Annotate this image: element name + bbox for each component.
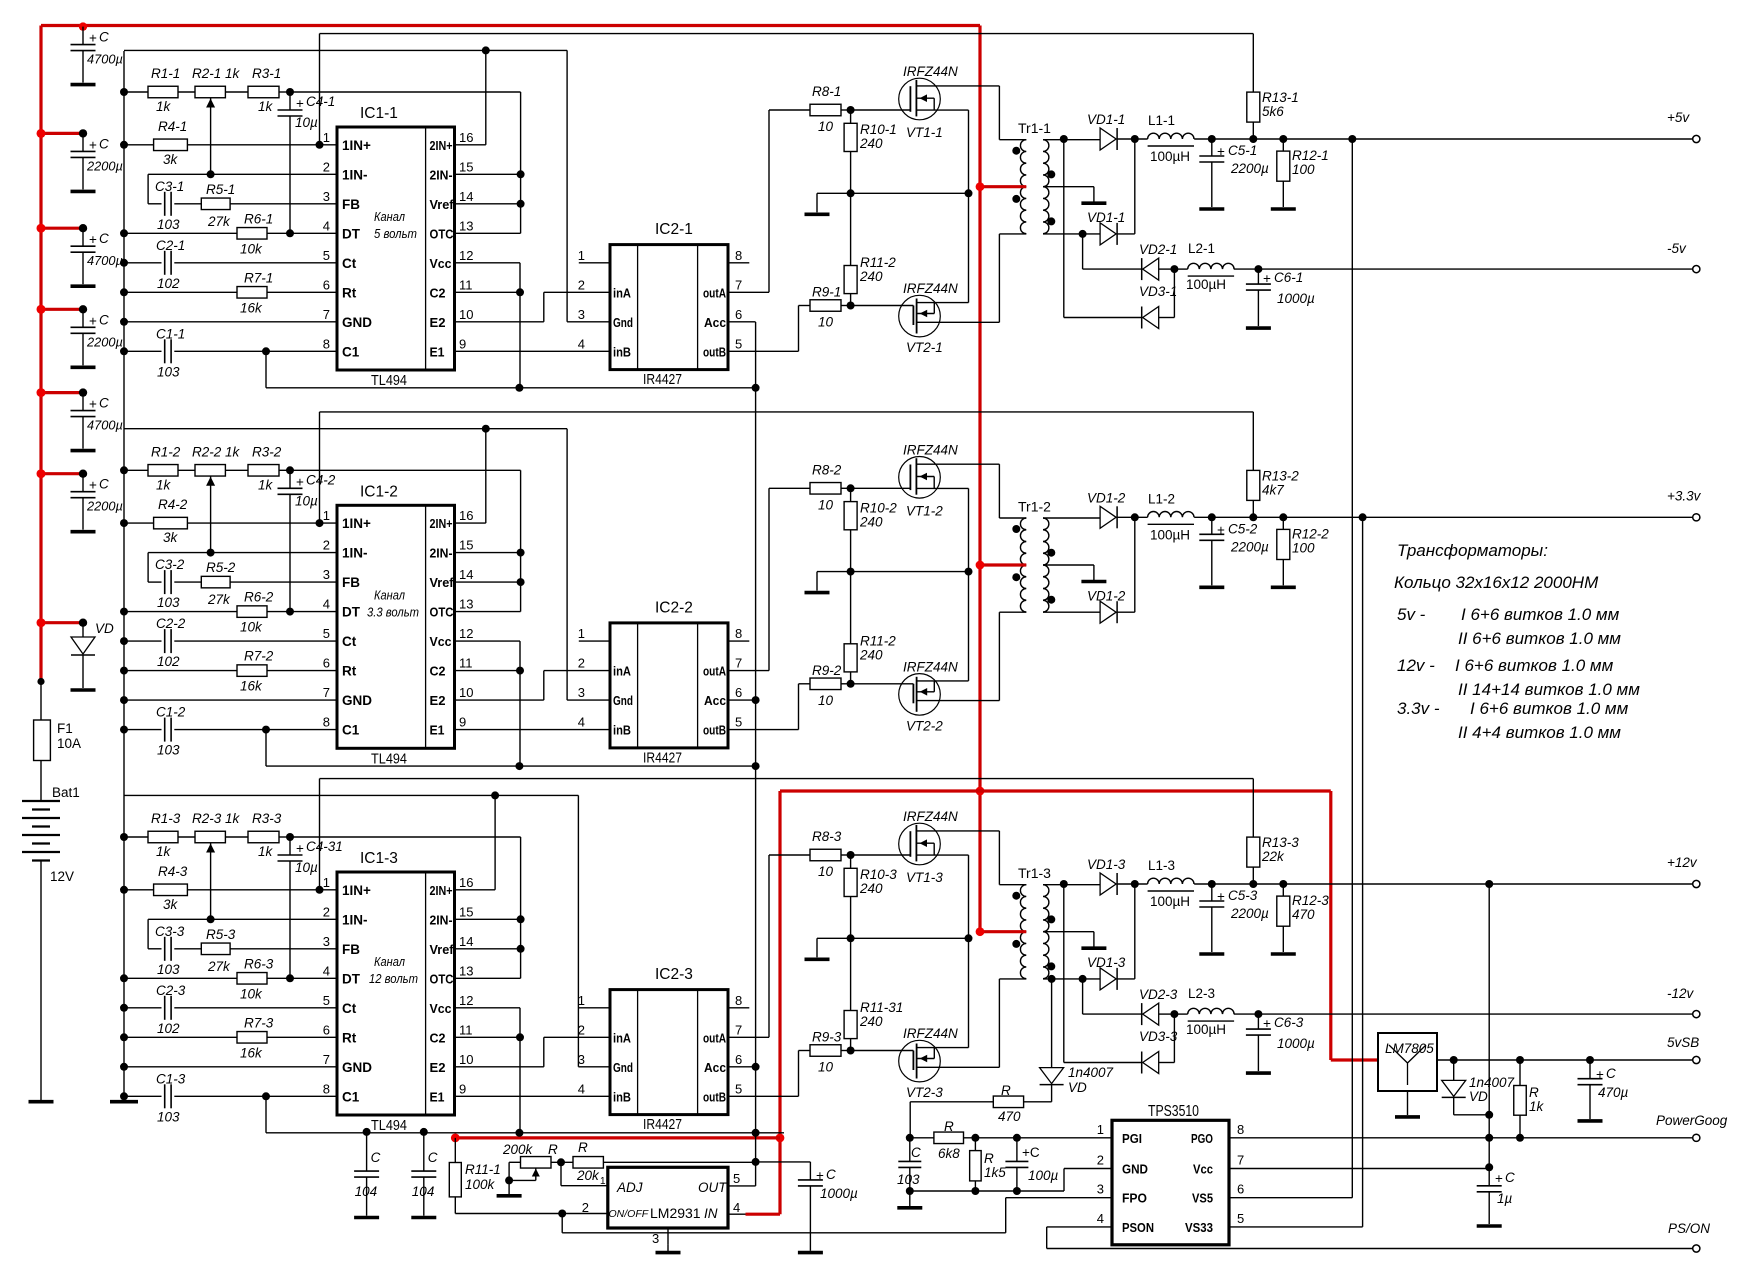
wire outB to R9 ch3 bbox=[728, 1095, 799, 1097]
wire -rail ch1 bbox=[1234, 268, 1695, 270]
svg-text:R4-3: R4-3 bbox=[158, 864, 188, 879]
wire PSON pin4 bbox=[1047, 1226, 1112, 1228]
resistor R12-3 470 bbox=[1279, 880, 1287, 888]
svg-text:Tr1-1: Tr1-1 bbox=[1018, 120, 1051, 136]
svg-text:10: 10 bbox=[459, 1052, 473, 1067]
svg-text:100µH: 100µH bbox=[1150, 149, 1190, 164]
wire gate VT2-2 bbox=[851, 683, 914, 685]
svg-text:C1-2: C1-2 bbox=[156, 705, 186, 720]
svg-text:inB: inB bbox=[613, 723, 631, 738]
wire 5vSB rail bbox=[1437, 1059, 1695, 1061]
svg-text:II 4+4 витков 1.0 мм: II 4+4 витков 1.0 мм bbox=[1458, 723, 1621, 742]
wire PGI gnd row bbox=[910, 1190, 1064, 1192]
svg-text:C2: C2 bbox=[430, 1030, 446, 1045]
svg-text:16k: 16k bbox=[240, 300, 263, 315]
svg-text:6: 6 bbox=[323, 1022, 330, 1037]
svg-text:3: 3 bbox=[323, 934, 330, 949]
svg-text:R: R bbox=[548, 1142, 558, 1157]
wire NC pin8 IC2-2 bbox=[728, 640, 749, 642]
wire red ch3 loop vertical down to LM2931 bbox=[778, 791, 781, 1214]
svg-text:10k: 10k bbox=[240, 620, 263, 635]
wire DT row ch3 bbox=[120, 974, 128, 982]
svg-text:1000µ: 1000µ bbox=[1277, 1036, 1315, 1051]
node input cap 1 top bbox=[79, 22, 87, 30]
svg-text:1000µ: 1000µ bbox=[1277, 291, 1315, 306]
wire secondary bottom ch1 bbox=[1043, 233, 1100, 235]
svg-text:VT1-2: VT1-2 bbox=[906, 503, 943, 518]
svg-text:IRFZ44N: IRFZ44N bbox=[903, 1026, 958, 1041]
svg-text:inA: inA bbox=[613, 1030, 632, 1045]
resistor R12-2 100 bbox=[1279, 513, 1287, 521]
svg-text:4700µ: 4700µ bbox=[87, 418, 123, 433]
svg-text:R8-3: R8-3 bbox=[812, 829, 842, 844]
svg-text:5: 5 bbox=[735, 336, 742, 351]
svg-text:7: 7 bbox=[323, 307, 330, 322]
resistor R10-2 240 bbox=[850, 488, 852, 501]
wire secondary top ch3 bbox=[1043, 884, 1100, 886]
wire gnd line ch1 bbox=[124, 49, 567, 51]
wire Vcc pin7 TPS bbox=[1229, 1168, 1489, 1170]
wire GND pin2 TPS bbox=[1063, 1169, 1065, 1192]
svg-text:1: 1 bbox=[323, 875, 330, 890]
svg-text:Канал: Канал bbox=[374, 587, 406, 602]
resistor R3-1 1k bbox=[248, 86, 279, 98]
svg-text:VT2-2: VT2-2 bbox=[906, 718, 943, 733]
svg-text:R5-2: R5-2 bbox=[206, 560, 236, 575]
svg-text:7: 7 bbox=[323, 685, 330, 700]
svg-text:ON/OFF: ON/OFF bbox=[609, 1208, 649, 1220]
resistor R 1k bbox=[1516, 1056, 1524, 1064]
wire red stub to input cap 2 bbox=[41, 132, 83, 135]
svg-text:Vcc: Vcc bbox=[1193, 1162, 1213, 1177]
ground pot bbox=[508, 1180, 510, 1194]
svg-text:R: R bbox=[1001, 1083, 1011, 1098]
node input cap 3 top bbox=[79, 224, 87, 232]
svg-text:6k8: 6k8 bbox=[938, 1146, 960, 1161]
svg-text:1n4007: 1n4007 bbox=[1068, 1065, 1114, 1080]
svg-text:1k: 1k bbox=[156, 477, 172, 492]
resistor R3-2 1k bbox=[248, 465, 279, 477]
svg-text:15: 15 bbox=[459, 538, 473, 553]
svg-text:10k: 10k bbox=[240, 241, 263, 256]
capacitor C 2200µ input #6 bbox=[82, 474, 84, 492]
svg-text:+: + bbox=[89, 232, 97, 247]
svg-text:VD1-2: VD1-2 bbox=[1087, 490, 1126, 505]
svg-text:R: R bbox=[578, 1140, 588, 1155]
svg-text:C1: C1 bbox=[342, 723, 360, 738]
svg-text:13: 13 bbox=[459, 597, 473, 612]
svg-text:E1: E1 bbox=[430, 1089, 445, 1104]
svg-text:IR4427: IR4427 bbox=[643, 1117, 682, 1133]
svg-text:C4-2: C4-2 bbox=[306, 472, 336, 487]
op-amp IC1-2 TL494 bbox=[337, 505, 455, 748]
svg-text:16k: 16k bbox=[240, 1045, 263, 1060]
svg-text:5: 5 bbox=[323, 626, 330, 641]
ground bus bottom bbox=[110, 1100, 138, 1104]
svg-text:9: 9 bbox=[459, 1081, 466, 1096]
svg-text:10: 10 bbox=[818, 1060, 834, 1075]
svg-text:R7-3: R7-3 bbox=[244, 1015, 274, 1030]
svg-text:ADJ: ADJ bbox=[616, 1180, 643, 1195]
resistor R8-2 10 bbox=[810, 483, 841, 495]
svg-text:+: + bbox=[1263, 1016, 1271, 1031]
svg-text:C4-31: C4-31 bbox=[306, 839, 343, 854]
svg-text:+: + bbox=[89, 397, 97, 412]
wire Vref pin14 ch2 bbox=[455, 581, 521, 583]
wire red stub to input cap 4 bbox=[41, 308, 83, 311]
svg-text:PGI: PGI bbox=[1122, 1131, 1142, 1146]
svg-text:TL494: TL494 bbox=[371, 751, 407, 767]
svg-text:IR4427: IR4427 bbox=[643, 372, 682, 388]
capacitor C6-1 1000µ bbox=[1257, 269, 1259, 284]
svg-text:3.3v -: 3.3v - bbox=[1397, 699, 1440, 718]
wire R20k to OUT node bbox=[603, 1161, 755, 1163]
svg-text:C2: C2 bbox=[430, 285, 446, 300]
svg-text:R1-1: R1-1 bbox=[151, 66, 180, 81]
svg-text:1: 1 bbox=[578, 626, 585, 641]
wire 2IN- pin15 ch3 bbox=[455, 918, 521, 920]
svg-text:9: 9 bbox=[459, 336, 466, 351]
svg-text:1000µ: 1000µ bbox=[820, 1186, 858, 1201]
diode VD 1n4007 at 5vSB bbox=[1453, 1060, 1455, 1080]
ground battery bbox=[29, 1100, 54, 1104]
wire gnd line ch3 bbox=[124, 794, 578, 796]
svg-text:Acc: Acc bbox=[704, 315, 726, 330]
svg-text:3: 3 bbox=[578, 1052, 585, 1067]
svg-text:C4-1: C4-1 bbox=[306, 94, 335, 109]
svg-text:PS/ON: PS/ON bbox=[1668, 1221, 1710, 1236]
transistor VT1-2 IRFZ44N bbox=[899, 457, 941, 499]
svg-text:TL494: TL494 bbox=[371, 1118, 407, 1134]
svg-text:100k: 100k bbox=[465, 1177, 496, 1192]
transistor VT2-3 IRFZ44N bbox=[899, 1040, 941, 1082]
svg-text:240: 240 bbox=[859, 136, 883, 151]
driver IC2-2 IR4427 bbox=[610, 623, 728, 748]
svg-text:13: 13 bbox=[459, 218, 473, 233]
wire Gnd pin3 IC2-2 bbox=[567, 699, 610, 701]
svg-text:+: + bbox=[1217, 144, 1225, 159]
capacitor C3-3 103 bbox=[148, 948, 161, 950]
svg-text:R: R bbox=[944, 1119, 954, 1134]
wire Rt row ch3 bbox=[120, 1033, 128, 1041]
svg-text:R13-1: R13-1 bbox=[1262, 90, 1299, 105]
capacitor C 100µ PGI bbox=[1016, 1138, 1018, 1162]
wire 2IN+ ground ch1 bbox=[482, 46, 490, 54]
svg-text:10µ: 10µ bbox=[295, 493, 318, 508]
wire Ct row ch1 bbox=[120, 259, 128, 267]
wire Gnd pin3 IC2-3 bbox=[578, 1066, 610, 1068]
svg-text:C1-1: C1-1 bbox=[156, 326, 185, 341]
svg-text:100µH: 100µH bbox=[1150, 894, 1190, 909]
svg-text:103: 103 bbox=[157, 595, 180, 610]
svg-text:2IN-: 2IN- bbox=[430, 912, 453, 927]
wire R1 row ch3 bbox=[120, 833, 128, 841]
svg-text:1n4007: 1n4007 bbox=[1469, 1075, 1515, 1090]
svg-text:VD: VD bbox=[95, 621, 114, 636]
svg-text:8: 8 bbox=[323, 1081, 330, 1096]
svg-text:14: 14 bbox=[459, 934, 473, 949]
node red junction at 12V line to R11-1 bbox=[776, 1134, 785, 1143]
svg-text:8: 8 bbox=[323, 336, 330, 351]
svg-text:I 6+6 витков 1.0 мм: I 6+6 витков 1.0 мм bbox=[1470, 699, 1629, 718]
resistor R 1k5 bbox=[974, 1138, 976, 1151]
svg-text:104: 104 bbox=[355, 1184, 378, 1199]
capacitor C6-3 1000µ bbox=[1257, 1014, 1259, 1029]
svg-text:+3.3v: +3.3v bbox=[1667, 488, 1702, 503]
wire Acc pin6 IC2-1 bbox=[728, 321, 756, 323]
wire R3 to Vref jog ch3 bbox=[290, 836, 521, 838]
wire Vcc pin12 ch2 bbox=[455, 640, 521, 642]
wire VT1 source to gnd line ch3 bbox=[968, 855, 970, 938]
svg-text:10: 10 bbox=[818, 497, 834, 512]
wire VT2 source to primary ch3 bbox=[998, 979, 1000, 1067]
svg-text:Vcc: Vcc bbox=[430, 256, 452, 271]
svg-text:R3-2: R3-2 bbox=[252, 444, 282, 459]
wire OTC pin13 ch3 bbox=[455, 977, 521, 979]
wire NC pin8 IC2-1 bbox=[728, 262, 749, 264]
svg-text:10: 10 bbox=[459, 307, 473, 322]
svg-text:R2-2 1k: R2-2 1k bbox=[192, 444, 241, 459]
svg-text:R: R bbox=[984, 1151, 994, 1166]
svg-text:Gnd: Gnd bbox=[613, 693, 633, 708]
svg-text:C2-2: C2-2 bbox=[156, 616, 186, 631]
svg-text:+C: +C bbox=[1022, 1145, 1040, 1160]
svg-text:6: 6 bbox=[1237, 1182, 1244, 1197]
wire red 12V line to R11-1 bbox=[455, 1136, 780, 1139]
wire lower diode to rail ch2 bbox=[1134, 517, 1136, 612]
wire Vref pin14 ch1 bbox=[455, 203, 521, 205]
wire VS5 sense line bbox=[1348, 135, 1356, 143]
node input cap 4 top bbox=[79, 305, 87, 313]
svg-text:1: 1 bbox=[323, 508, 330, 523]
wire outA to R8 ch3 bbox=[728, 1036, 769, 1038]
wire secondary top to VD3-3 bbox=[1060, 880, 1068, 888]
svg-text:R2-3 1k: R2-3 1k bbox=[192, 811, 241, 826]
svg-text:L2-1: L2-1 bbox=[1188, 241, 1215, 256]
svg-text:VT2-3: VT2-3 bbox=[906, 1085, 943, 1100]
svg-text:Ct: Ct bbox=[342, 256, 357, 271]
svg-text:OUT: OUT bbox=[698, 1180, 728, 1195]
capacitor C3-2 103 bbox=[148, 581, 161, 583]
svg-text:+: + bbox=[296, 474, 304, 489]
svg-text:7: 7 bbox=[735, 277, 742, 292]
wire secondary top ch2 bbox=[1043, 517, 1100, 519]
svg-text:3k: 3k bbox=[163, 152, 179, 167]
wire outB to R9 ch1 bbox=[728, 350, 799, 352]
wire OUT pin5 LM2931 bbox=[728, 1185, 756, 1187]
wire VT1 source to gnd line ch2 bbox=[968, 488, 970, 571]
potentiometer R2-3 1k bbox=[195, 831, 225, 843]
svg-text:240: 240 bbox=[859, 1014, 883, 1029]
capacitor C2-3 102 bbox=[164, 996, 166, 1020]
svg-text:100: 100 bbox=[1292, 162, 1315, 177]
svg-text:20k: 20k bbox=[576, 1168, 600, 1183]
svg-text:OTC: OTC bbox=[430, 226, 455, 241]
svg-text:C: C bbox=[99, 30, 109, 45]
wire red into LM2931 IN bbox=[746, 1213, 781, 1216]
svg-text:2200µ: 2200µ bbox=[86, 158, 123, 173]
svg-text:11: 11 bbox=[459, 656, 473, 671]
svg-text:C6-1: C6-1 bbox=[1274, 270, 1303, 285]
svg-text:E1: E1 bbox=[430, 723, 445, 738]
svg-text:R13-2: R13-2 bbox=[1262, 468, 1299, 483]
svg-text:13: 13 bbox=[459, 963, 473, 978]
svg-text:E2: E2 bbox=[430, 693, 446, 708]
wire C1 row ch1 bbox=[120, 347, 128, 355]
svg-text:R6-3: R6-3 bbox=[244, 956, 274, 971]
wire outA to R8 ch2 bbox=[728, 670, 769, 672]
wire red +12V top bus bbox=[41, 24, 980, 27]
svg-text:3: 3 bbox=[1097, 1182, 1104, 1197]
svg-text:Tr1-3: Tr1-3 bbox=[1018, 865, 1051, 881]
wire R1 row ch1 bbox=[120, 88, 128, 96]
svg-text:3: 3 bbox=[652, 1231, 659, 1246]
svg-text:6: 6 bbox=[735, 1052, 742, 1067]
svg-text:14: 14 bbox=[459, 189, 473, 204]
wire 1IN- row ch1 bbox=[148, 173, 337, 175]
svg-text:12: 12 bbox=[459, 993, 473, 1008]
wire Gnd pin3 IC2-1 bbox=[567, 321, 610, 323]
svg-text:VD2-3: VD2-3 bbox=[1139, 987, 1178, 1002]
svg-text:100µ: 100µ bbox=[1028, 1168, 1059, 1183]
capacitor C 103 PGI bbox=[909, 1138, 911, 1162]
svg-text:PSON: PSON bbox=[1122, 1220, 1154, 1235]
capacitor C5-2 2200µ bbox=[1211, 517, 1213, 534]
wire ground bus vertical bbox=[123, 51, 125, 1100]
ground mid ch3 bbox=[816, 938, 818, 957]
svg-text:R: R bbox=[1529, 1085, 1539, 1100]
wire feedback line ch1 bbox=[320, 33, 1254, 35]
wire C2 pin11 ch3 bbox=[455, 1036, 521, 1038]
wire secondary bottom ch2 bbox=[1043, 611, 1100, 613]
svg-text:C2-1: C2-1 bbox=[156, 238, 185, 253]
resistor R11-31 240 bbox=[850, 938, 852, 1010]
svg-text:VD1-2: VD1-2 bbox=[1087, 588, 1126, 603]
svg-text:7: 7 bbox=[323, 1052, 330, 1067]
node red bus to black bbox=[37, 678, 44, 685]
svg-text:R11-1: R11-1 bbox=[465, 1162, 501, 1177]
svg-text:5 вольт: 5 вольт bbox=[374, 226, 417, 241]
svg-text:2IN+: 2IN+ bbox=[430, 138, 453, 153]
svg-text:Gnd: Gnd bbox=[613, 315, 633, 330]
svg-text:R3-3: R3-3 bbox=[252, 811, 282, 826]
resistor R6-2 10k bbox=[237, 606, 267, 618]
svg-text:1k: 1k bbox=[258, 477, 274, 492]
svg-text:R5-1: R5-1 bbox=[206, 182, 235, 197]
svg-text:100µH: 100µH bbox=[1186, 277, 1226, 292]
wire pin3 LM2931 to ground bbox=[667, 1228, 669, 1245]
svg-text:VD3-1: VD3-1 bbox=[1139, 284, 1177, 299]
transistor VT2-1 IRFZ44N bbox=[899, 295, 941, 337]
resistor R12-1 100 bbox=[1279, 135, 1287, 143]
svg-text:5vSB: 5vSB bbox=[1667, 1035, 1699, 1050]
svg-text:1IN+: 1IN+ bbox=[342, 516, 371, 531]
wire ON/OFF pin2 row bbox=[455, 1213, 608, 1215]
diode VD input protection bbox=[41, 621, 83, 624]
svg-text:6: 6 bbox=[323, 277, 330, 292]
svg-text:R1-3: R1-3 bbox=[151, 811, 181, 826]
wire primary top ch1 bbox=[999, 139, 1026, 141]
svg-text:C5-2: C5-2 bbox=[1228, 521, 1258, 536]
wire primary bottom ch2 bbox=[999, 611, 1026, 613]
resistor R4-3 3k bbox=[154, 884, 188, 896]
svg-text:R4-2: R4-2 bbox=[158, 497, 188, 512]
svg-text:1IN-: 1IN- bbox=[342, 546, 368, 561]
capacitor C1-3 103 bbox=[164, 1084, 166, 1108]
svg-text:IN: IN bbox=[704, 1206, 718, 1221]
svg-text:240: 240 bbox=[859, 269, 883, 284]
wire PGI row bbox=[906, 1134, 914, 1142]
svg-text:DT: DT bbox=[342, 226, 361, 241]
wire Vcc pin12 ch3 bbox=[455, 1007, 521, 1009]
capacitor C4-1 10µ bbox=[289, 92, 291, 110]
svg-text:C: C bbox=[1606, 1066, 1616, 1081]
diode VD 1n4007 standby bbox=[1040, 1068, 1064, 1084]
svg-text:C6-3: C6-3 bbox=[1274, 1015, 1304, 1030]
resistor R7-2 16k bbox=[237, 665, 267, 677]
svg-text:inB: inB bbox=[613, 344, 631, 359]
wire red branch to LM7805 horizontal bbox=[980, 789, 1331, 792]
node phase dots bbox=[1012, 147, 1020, 155]
wire red stub to input cap 3 bbox=[41, 227, 83, 230]
svg-text:C: C bbox=[99, 396, 109, 411]
svg-text:IRFZ44N: IRFZ44N bbox=[903, 64, 958, 79]
svg-text:5v -: 5v - bbox=[1397, 605, 1426, 624]
wire +rail ch2 bbox=[1194, 516, 1695, 518]
wire secondary center tap to ground ch3 bbox=[1043, 931, 1094, 933]
wire C1 row ch2 bbox=[120, 726, 128, 734]
wire C1 row ch3 bbox=[120, 1092, 128, 1100]
svg-text:II 6+6 витков 1.0 мм: II 6+6 витков 1.0 мм bbox=[1458, 629, 1621, 648]
svg-text:11: 11 bbox=[459, 277, 473, 292]
svg-text:27k: 27k bbox=[207, 592, 231, 607]
svg-text:+: + bbox=[1596, 1067, 1604, 1082]
svg-text:4: 4 bbox=[578, 1081, 585, 1096]
svg-text:Vref: Vref bbox=[430, 942, 455, 957]
svg-text:+: + bbox=[1263, 271, 1271, 286]
svg-text:2200µ: 2200µ bbox=[86, 334, 123, 349]
capacitor C1-2 103 bbox=[164, 718, 166, 742]
capacitor C 104 bbox=[363, 1128, 371, 1136]
svg-text:2: 2 bbox=[578, 277, 585, 292]
wire outB to R9 ch2 bbox=[728, 729, 799, 731]
svg-text:9: 9 bbox=[459, 715, 466, 730]
node input cap 5 top bbox=[79, 388, 87, 396]
svg-text:+: + bbox=[1495, 1171, 1503, 1186]
svg-text:4: 4 bbox=[1097, 1211, 1104, 1226]
wire gate VT1-1 bbox=[851, 109, 911, 111]
svg-text:+: + bbox=[89, 137, 97, 152]
capacitor C4-3 10µ bbox=[289, 837, 291, 855]
capacitor C 2200µ input #2 bbox=[82, 133, 84, 151]
svg-text:5: 5 bbox=[735, 715, 742, 730]
svg-text:C: C bbox=[99, 477, 109, 492]
wire red center tap ch1 bbox=[980, 185, 1026, 188]
svg-text:Vref: Vref bbox=[430, 575, 455, 590]
svg-text:8: 8 bbox=[323, 715, 330, 730]
svg-text:R3-1: R3-1 bbox=[252, 66, 281, 81]
svg-text:6: 6 bbox=[735, 307, 742, 322]
wire 1IN+ row ch3 bbox=[120, 886, 128, 894]
svg-text:C: C bbox=[99, 136, 109, 151]
svg-text:FB: FB bbox=[342, 575, 360, 590]
capacitor C1-1 103 bbox=[164, 339, 166, 363]
wire VT2 drain to gnd line ch1 bbox=[968, 193, 970, 302]
svg-text:L1-2: L1-2 bbox=[1148, 491, 1175, 506]
op-amp IC1-1 TL494 bbox=[337, 127, 455, 370]
svg-text:2: 2 bbox=[323, 904, 330, 919]
svg-text:R9-1: R9-1 bbox=[812, 285, 841, 300]
